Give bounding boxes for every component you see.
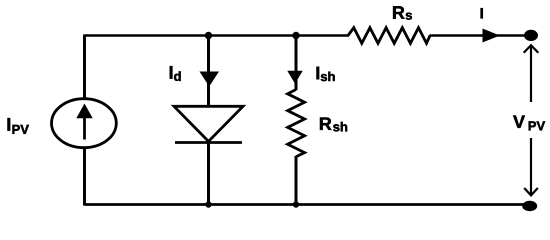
wire top bus left segment xyxy=(85,34,350,37)
wire top bus right segment xyxy=(430,34,528,37)
wire Rsh branch lower xyxy=(295,156,298,206)
label Rs xyxy=(393,6,412,19)
current arrow Id xyxy=(200,72,220,87)
wire Rsh branch upper xyxy=(295,36,298,91)
label VPV xyxy=(513,116,545,131)
wire diode branch upper xyxy=(207,36,210,108)
node junction top diode xyxy=(205,32,212,39)
label IPV xyxy=(8,118,29,134)
wire diode branch lower xyxy=(207,142,210,206)
voltage arrow VPV upper (points up) xyxy=(524,45,539,102)
resistor Rsh xyxy=(288,90,305,157)
resistor Rs xyxy=(348,28,430,44)
wire left branch upper xyxy=(83,35,86,100)
node junction bottom Rsh xyxy=(293,201,299,207)
node junction bottom diode xyxy=(205,201,211,207)
diode D xyxy=(174,106,243,142)
node terminal bottom-right xyxy=(522,201,537,211)
node junction top Rsh xyxy=(292,32,299,39)
label I xyxy=(481,8,483,18)
current source IPV xyxy=(52,99,117,148)
label Id xyxy=(170,66,181,81)
label Rsh xyxy=(320,118,347,132)
current arrow I xyxy=(483,29,500,43)
label Ish xyxy=(317,67,335,81)
current arrow Ish xyxy=(287,71,302,84)
voltage arrow VPV lower (points down) xyxy=(524,138,538,195)
node terminal top-right xyxy=(524,30,538,41)
wire bottom bus xyxy=(85,203,528,206)
wire left branch lower xyxy=(83,149,86,206)
